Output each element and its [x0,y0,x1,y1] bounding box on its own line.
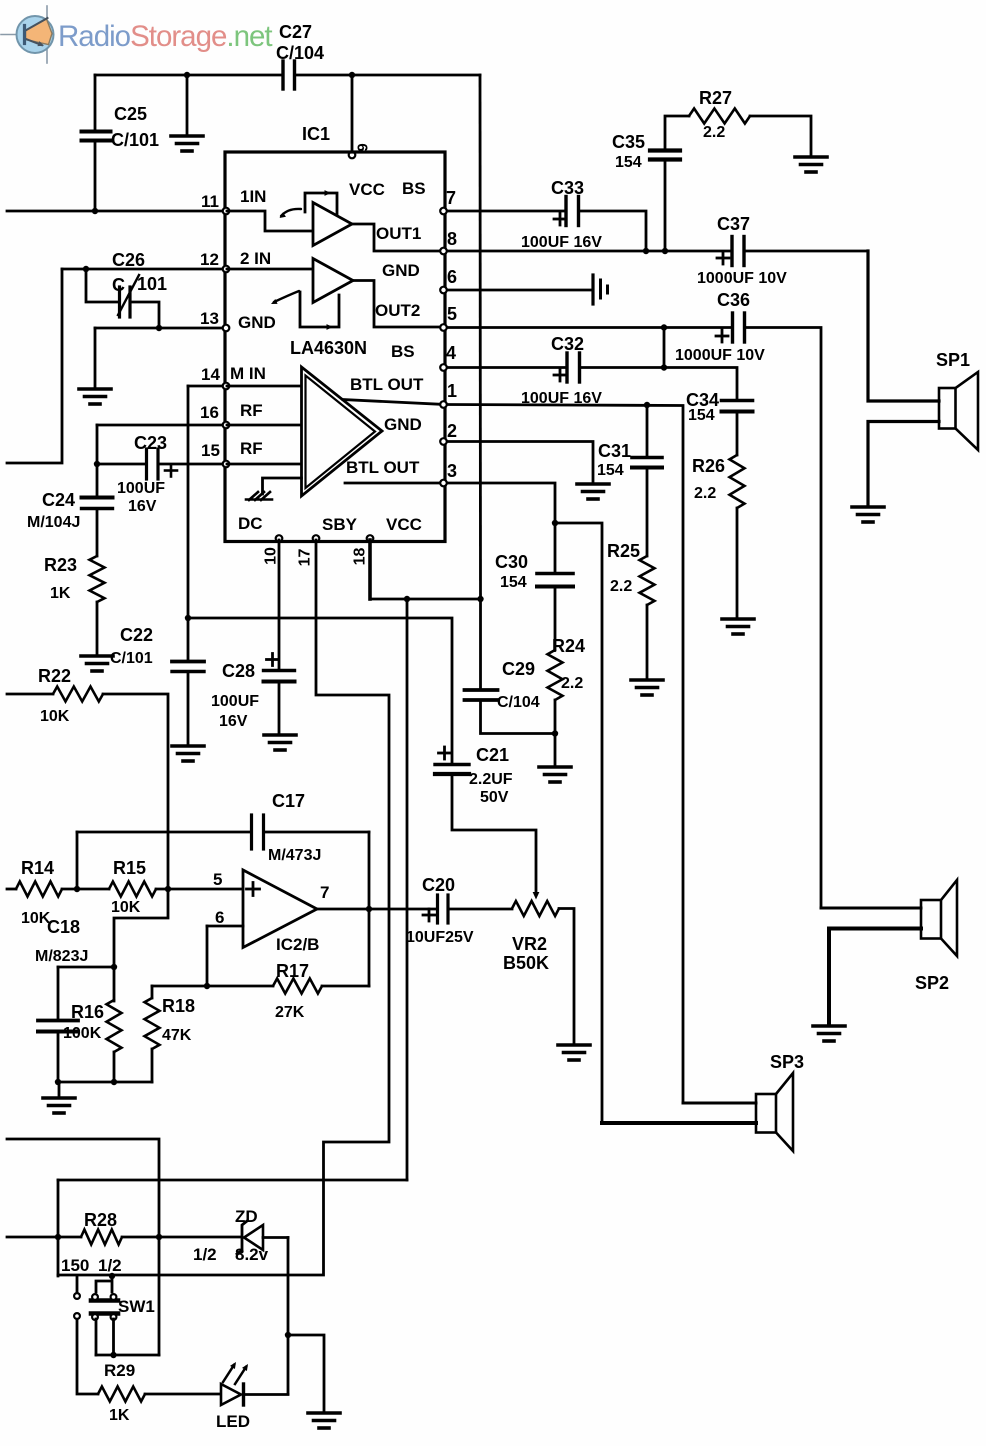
wire input row pin12 [62,268,225,271]
node dot pin13 junction [156,325,162,331]
node dot pin3 branch [552,520,558,526]
svg-text:R15: R15 [113,858,146,878]
pin 8 circle [440,248,447,255]
plus C37 [717,257,729,260]
ground SP2 [813,1024,845,1028]
svg-text:154: 154 [688,407,715,424]
capacitor C24 [82,496,113,500]
wire input row pin11 [7,210,225,213]
label C26 slash [118,275,139,315]
wire C29 bottom [481,701,556,734]
wire feedback to R18 [152,985,207,988]
pin 7 circle [440,208,447,215]
ground C28 [264,733,296,737]
wire C24 stem [96,464,99,556]
wire amp2 input [227,268,312,271]
resistor R25 [640,556,655,605]
node dot ZD LED junction [285,1332,291,1338]
svg-text:RadioStorage.net: RadioStorage.net [58,20,272,53]
svg-text:M IN: M IN [230,364,266,383]
wire line B y1180 [58,1179,407,1182]
wire bus x481 [479,75,482,599]
wire C26 branch left [86,269,118,302]
svg-text:150: 150 [61,1256,89,1275]
wire pin14 drop [187,386,190,618]
pin 10 circle [276,535,283,542]
capacitor C17 [250,815,253,849]
svg-text:47K: 47K [162,1027,192,1044]
ground R25 [631,678,663,682]
capacitor C18 [38,1019,78,1023]
node dot C26 junction [83,266,89,272]
pin 14 circle [223,383,230,390]
svg-text:C37: C37 [717,214,750,234]
node dot x407 y599 [404,596,410,602]
node dot pin15 row [94,461,100,467]
capacitor C21 [435,763,469,766]
amp2 gain arrow [274,291,299,302]
ground pin2 [577,482,609,486]
capacitor C23 [145,449,148,479]
wire R16 top lead [113,967,116,1001]
svg-text:14: 14 [201,365,220,384]
resistor R24 [548,650,563,700]
node dot C33 bottom [643,248,649,254]
svg-text:IC2/B: IC2/B [276,935,319,954]
svg-text:154: 154 [500,574,527,591]
wire switch bottom rail [96,1354,159,1357]
svg-text:101: 101 [137,274,167,294]
wire row pin7 C33 [445,211,646,251]
speaker SP2 cone [941,880,957,956]
plus C21 [439,752,451,755]
wire pin6 drop [206,926,209,986]
svg-text:LED: LED [216,1412,250,1431]
amp1 gain arrow [281,209,301,216]
wire R27 to ground [750,116,811,155]
wire row pin3 [445,483,555,523]
wire pin16 inside [227,424,301,427]
svg-text:2: 2 [447,421,457,441]
node dot pin9 junction [349,72,355,78]
op-amp amp1 triangle [313,203,352,246]
svg-text:M/473J: M/473J [268,847,321,864]
svg-text:R23: R23 [44,555,77,575]
wire pin5-pin4 link [663,328,666,368]
svg-text:1/2: 1/2 [193,1245,217,1264]
wire pin18 stem [368,540,372,599]
wire R14-R15 [62,888,109,891]
wire R17 to output [322,985,369,988]
svg-text:C28: C28 [222,661,255,681]
node dot C35 bottom [662,248,668,254]
op-amp IC2/B triangle [243,870,317,948]
wire C26 branch right [131,302,159,328]
svg-text:C/104: C/104 [276,43,324,63]
wire power input A [7,1139,159,1355]
BTL ground hatches [249,492,270,500]
svg-text:11: 11 [201,192,219,211]
wire row pin14 [188,385,225,388]
wire row pin16 [97,424,225,427]
svg-text:13: 13 [200,309,219,328]
pin 1 circle [440,401,447,408]
svg-text:8: 8 [447,229,457,249]
wire row pin6 [445,289,592,292]
svg-text:5: 5 [447,304,457,324]
pin 3 circle [440,480,447,487]
wire R26 ground stem [736,508,739,618]
svg-text:10UF25V: 10UF25V [406,929,474,946]
wire R17 row [207,985,273,988]
pin 5 circle [440,324,447,331]
pin 15 circle [223,461,230,468]
node dot R16 top [111,964,117,970]
wire amp2 output [353,281,445,328]
wire R18 bottom lead [151,1049,154,1082]
logo collector line [26,18,48,31]
amp2 feedback arrow [327,324,334,330]
svg-text:10K: 10K [111,899,141,916]
switch SW1 left stems [77,1276,98,1394]
wire SP3 top [683,1102,756,1105]
svg-text:C18: C18 [47,917,80,937]
svg-text:R27: R27 [699,88,732,108]
wire ground stem top [186,75,189,135]
node dot bus y599 [477,596,483,602]
svg-text:C/104: C/104 [497,694,540,711]
wire R28 to ZD [122,1236,240,1239]
switch SW1 bar1 [91,1298,118,1303]
svg-text:2.2: 2.2 [694,485,716,502]
wire SP2 bottom [829,929,921,1026]
pin 18 circle [367,535,374,542]
svg-text:M/104J: M/104J [27,514,80,531]
svg-text:SW1: SW1 [118,1297,155,1316]
node dot switch bottom [110,1352,116,1358]
svg-text:DC: DC [238,514,263,533]
svg-text:6: 6 [215,908,224,927]
op-amp BTL power amp triangle outer [302,367,383,496]
pin 17 circle [313,535,320,542]
svg-text:BTL OUT: BTL OUT [346,458,420,477]
node dot C36 row [661,324,667,330]
svg-text:2.2: 2.2 [703,124,725,141]
capacitor C27 [281,61,284,89]
svg-text:1: 1 [447,381,457,401]
svg-text:OUT1: OUT1 [376,224,421,243]
potentiometer VR2 [512,901,559,916]
svg-text:SP1: SP1 [936,350,970,370]
pin 12 circle [223,266,230,273]
svg-text:RF: RF [240,401,263,420]
wire SP1 top [868,251,939,401]
svg-text:C23: C23 [134,433,167,453]
amp1 feedback arrow [325,190,332,196]
speaker SP3 cone [776,1073,793,1151]
pin 16 circle [223,422,230,429]
plus C36 [716,335,728,338]
op-amp IC1 LA4630N box [225,152,445,542]
wire pin9 stem [351,75,354,151]
svg-text:C/101: C/101 [111,130,159,150]
logo transistor circle [17,16,54,53]
wire pin10 stem C28 [278,540,281,734]
wire pin16 to pin15 drop [96,425,99,464]
speaker SP1 cone [956,372,979,450]
resistor R28 [81,1230,122,1245]
pin 6 circle [440,287,447,294]
svg-text:R28: R28 [84,1210,117,1230]
wire R22 drop [103,694,168,889]
ground R24 [539,765,571,769]
svg-text:C27: C27 [279,22,312,42]
capacitor C20 [436,895,439,923]
switch SW1 bottom stems [96,1319,114,1355]
svg-text:1K: 1K [109,1407,130,1424]
svg-text:C24: C24 [42,490,75,510]
ground preamp [43,1096,75,1100]
svg-text:SBY: SBY [322,515,358,534]
svg-text:IC1: IC1 [302,124,330,144]
capacitor C31 [632,456,662,460]
svg-text:17: 17 [297,549,314,567]
capacitor C33 [564,197,567,226]
node dot R15 right [165,886,171,892]
resistor R23 [90,556,105,602]
wire BTL out1 inside [343,400,445,405]
svg-text:12: 12 [200,250,219,269]
wire bottom rail [58,1081,152,1084]
capacitor C25 [82,130,111,134]
VR2 wiper arrow [533,892,540,900]
svg-text:100K: 100K [63,1025,102,1042]
resistor R16 [107,1000,122,1052]
svg-text:C32: C32 [551,334,584,354]
svg-text:BS: BS [402,179,426,198]
wire C22 stem [187,618,190,745]
resistor R22 [53,687,103,702]
wire C17 right drop [368,832,371,986]
ground SP1 [852,505,884,509]
svg-text:154: 154 [615,154,642,171]
svg-text:8.2v: 8.2v [235,1245,269,1264]
svg-text:100UF 16V: 100UF 16V [521,234,602,251]
ground pin13 [79,387,111,391]
ground R23 [81,654,113,658]
svg-text:R26: R26 [692,456,725,476]
svg-text:ZD: ZD [235,1207,258,1226]
svg-text:6: 6 [447,267,457,287]
svg-text:GND: GND [382,261,420,280]
svg-text:C26: C26 [112,250,145,270]
svg-text:1/2: 1/2 [98,1256,122,1275]
capacitor C37 [730,237,733,266]
wire C18 stem [57,967,60,1082]
svg-text:7: 7 [446,188,456,208]
node dot R24 bottom [552,730,558,736]
wire amp1 input jog [227,211,312,231]
wire C35 R27 branch [665,116,689,251]
plus C28 [267,658,279,661]
wire row pin2 [445,442,593,484]
op-amp BTL power amp triangle inner [306,376,376,489]
svg-text:3: 3 [447,461,457,481]
speaker SP1 box [939,388,956,429]
svg-text:154: 154 [597,462,624,479]
wire R24 ground stem [554,734,557,766]
plus C20 [423,914,435,917]
svg-text:18: 18 [352,548,369,566]
svg-text:2.2: 2.2 [561,675,583,692]
ground sideways pin6 [591,275,594,304]
pin 2 circle [440,438,447,445]
wire R16 bottom lead [113,1052,116,1082]
svg-text:1000UF 10V: 1000UF 10V [697,270,787,287]
wire C31 stem [646,405,649,556]
wire vcc row y599 [370,598,481,601]
logo orange horn [26,19,53,45]
plus C33 [554,218,566,221]
wire R15 to opamp [156,888,243,891]
switch SW1 left contacts [74,1293,80,1299]
node dot R28 right [156,1234,162,1240]
ground R27 [795,155,827,159]
ground VR2 [558,1043,590,1047]
wire R24 bottom [554,700,557,734]
BTL ground bracket [263,478,302,494]
svg-text:R16: R16 [71,1002,104,1022]
wire opamp pin6 input [207,925,243,928]
node dot R28 left [55,1234,61,1240]
node dot C31 row [644,402,650,408]
resistor R14 [16,882,62,897]
wire SP1 bottom [868,422,939,506]
svg-text:27K: 27K [275,1004,305,1021]
svg-text:R22: R22 [38,666,71,686]
capacitor C36 [731,313,734,342]
wire ZD right drop [287,1238,290,1395]
wire top rail y75 [95,74,480,77]
LED diode [221,1384,241,1405]
svg-text:C20: C20 [422,875,455,895]
svg-text:B50K: B50K [503,953,549,973]
wire pin3 down [555,523,602,1123]
wire M823J row [58,966,114,969]
svg-text:C: C [112,275,125,295]
node dot C34 row [661,364,667,370]
svg-text:5: 5 [213,870,222,889]
capacitor C22 [172,660,204,664]
zener diode ZD [237,1221,247,1254]
speaker SP3 box [756,1094,776,1133]
resistor R27 [689,109,750,124]
wire pin15 inside [227,463,301,466]
svg-text:C36: C36 [717,290,750,310]
wire row y618 [188,618,452,763]
logo emitter arrow [26,39,43,45]
wire pin14 inside [227,385,301,388]
wire R22 input [7,693,53,696]
svg-text:10K: 10K [40,708,70,725]
wire BTL out2 inside [345,482,445,485]
wire SP3 bottom [602,1121,756,1125]
amp1 feedback box [305,193,337,215]
capacitor C26 [118,287,121,317]
speaker SP2 box [921,900,941,939]
svg-text:1000UF 10V: 1000UF 10V [675,347,765,364]
svg-text:4: 4 [446,343,456,363]
op-amp amp2 triangle [313,259,353,303]
amp2 feedback box [300,292,339,327]
wire C17 row [77,831,369,834]
LED arrows [223,1365,234,1382]
svg-text:C31: C31 [598,441,631,461]
node dot output junction [366,906,372,912]
wire to ground branch [288,1335,324,1412]
wire x407 drop [406,599,409,1180]
ground top [171,134,203,138]
svg-text:C30: C30 [495,552,528,572]
wire row pin15 [97,463,225,466]
svg-text:C33: C33 [551,178,584,198]
svg-text:GND: GND [238,313,276,332]
svg-text:1IN: 1IN [240,187,266,206]
capacitor C35 [650,148,680,152]
capacitor C34 [722,399,753,403]
svg-text:R17: R17 [276,961,309,981]
wire R29 to LED [145,1393,220,1396]
node dot feedback junction [204,983,210,989]
wire rail ground stem [58,1082,61,1097]
node dot y618 junction [185,615,191,621]
svg-text:OUT2: OUT2 [375,301,420,320]
svg-text:R14: R14 [21,858,54,878]
resistor R26 [730,455,745,508]
wire row pin4 C32 [445,366,664,369]
resistor R29 [98,1387,145,1402]
pin 9 circle [349,152,356,159]
wire amp1 output [352,224,445,251]
wire SP2 top [821,907,921,910]
svg-text:15: 15 [201,441,220,460]
wire C17 left drop [76,832,79,889]
svg-text:VCC: VCC [386,515,422,534]
wire row pin13 [95,327,225,330]
pin 11 circle [223,208,230,215]
svg-text:C25: C25 [114,104,147,124]
svg-text:2.2UF: 2.2UF [469,771,513,788]
wire C21 to VR2 arm [452,775,536,894]
wire R25 ground stem [646,605,649,679]
svg-text:R18: R18 [162,996,195,1016]
logo RadioStorage.net icon crosshair [1,34,24,36]
svg-text:BS: BS [391,342,415,361]
opamp plus symbol [247,888,260,891]
switch SW1 bar2 [91,1311,118,1316]
wire row pin1 [445,405,683,1104]
capacitor C30 [537,572,573,576]
svg-text:10: 10 [263,547,280,565]
svg-text:VR2: VR2 [512,934,547,954]
capacitor C28 [264,669,295,672]
node dot C25 bottom [92,208,98,214]
svg-text:C22: C22 [120,625,153,645]
pin 4 circle [440,364,447,371]
wire C25 branch [94,75,97,211]
wire C29 top [479,599,482,689]
node dot rail left [55,1079,61,1085]
